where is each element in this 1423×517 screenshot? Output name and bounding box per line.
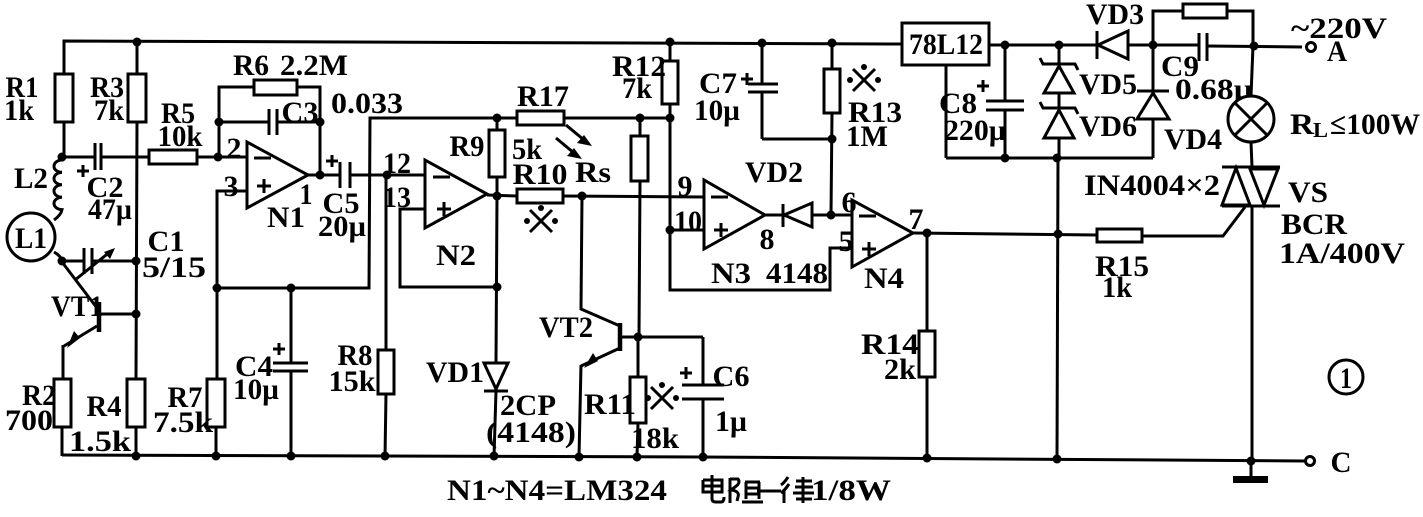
svg-text:2.2M: 2.2M xyxy=(280,49,348,82)
node bus R7 xyxy=(212,452,221,461)
svg-text:A: A xyxy=(1327,35,1347,68)
svg-text:VT2: VT2 xyxy=(539,311,593,344)
lamp RL xyxy=(1228,46,1420,167)
svg-text:1: 1 xyxy=(1340,362,1352,395)
svg-text:≤100W: ≤100W xyxy=(1330,108,1420,141)
node C4 top xyxy=(287,284,296,293)
capacitor C3 0.033 xyxy=(219,87,403,135)
svg-text:3: 3 xyxy=(224,170,239,203)
svg-text:2: 2 xyxy=(227,132,242,165)
op-amp N2 xyxy=(383,147,487,272)
triac VS BCR xyxy=(1084,167,1405,461)
svg-text:1k: 1k xyxy=(1102,271,1132,304)
node gate line / ground crossing xyxy=(1054,230,1063,239)
node C5 output xyxy=(383,171,392,180)
wire C5 node down to R8 xyxy=(385,175,388,350)
node bus R11 xyxy=(633,453,642,462)
resistor R14 2k xyxy=(861,233,935,459)
svg-text:20µ: 20µ xyxy=(318,210,366,243)
svg-text:5: 5 xyxy=(839,225,854,258)
svg-text:0.033: 0.033 xyxy=(331,87,403,120)
node C9 right xyxy=(1250,42,1259,51)
capacitor C9 0.68u xyxy=(1161,33,1302,106)
svg-text:N1~N4=LM324: N1~N4=LM324 xyxy=(447,474,667,507)
wire R1 bottom lead xyxy=(63,122,66,157)
wire C5 to N2 pin12 xyxy=(350,174,425,177)
coil L1 xyxy=(7,213,62,261)
node C1 right xyxy=(132,257,141,266)
terminal C xyxy=(1306,446,1352,479)
node N1 output xyxy=(316,171,325,180)
svg-text:C: C xyxy=(1331,446,1352,479)
node bus VT2 emitter xyxy=(575,453,584,462)
svg-text:R6: R6 xyxy=(233,49,269,82)
svg-text:7k: 7k xyxy=(94,94,124,127)
node bus R4 xyxy=(132,452,141,461)
op-amp N1 xyxy=(224,132,313,234)
node VT1 base xyxy=(132,310,141,319)
svg-text:10k: 10k xyxy=(158,120,203,153)
wire N2 pin13 feedback loop xyxy=(400,209,497,287)
caption resistors 1/8W (CJK) xyxy=(703,475,814,503)
svg-text:(4148): (4148) xyxy=(486,416,576,449)
wire R4 to bus xyxy=(135,427,138,457)
svg-text:VD2: VD2 xyxy=(745,156,803,189)
resistor R1 xyxy=(4,71,73,127)
svg-text:7: 7 xyxy=(909,203,924,236)
wire local ground row xyxy=(946,157,1153,160)
svg-text:6: 6 xyxy=(842,186,857,219)
wire node to C1 xyxy=(62,260,84,263)
regulator 78L12 xyxy=(902,23,989,65)
mark star at R13 xyxy=(847,64,881,91)
svg-text:7k: 7k xyxy=(622,72,652,105)
node pin10 xyxy=(666,226,675,235)
svg-text:R17: R17 xyxy=(517,80,569,113)
node VD3/VD4 junction xyxy=(1149,41,1158,50)
svg-text:1k: 1k xyxy=(4,94,34,127)
svg-text:1/8W: 1/8W xyxy=(811,474,891,507)
snubber resistor xyxy=(1153,4,1253,46)
wire zener bottom to main bus xyxy=(1057,158,1058,459)
svg-text:R10: R10 xyxy=(513,158,568,191)
transistor VT1 xyxy=(51,262,136,348)
node VT2 base xyxy=(634,333,643,342)
svg-text:78L12: 78L12 xyxy=(909,28,983,61)
svg-text:47µ: 47µ xyxy=(88,193,132,226)
svg-text:220µ: 220µ xyxy=(944,114,1006,147)
terminal A xyxy=(1291,12,1387,68)
svg-text:1.5k: 1.5k xyxy=(69,425,131,458)
svg-text:1A/400V: 1A/400V xyxy=(1279,237,1405,270)
node R3 top on bus xyxy=(133,38,142,47)
svg-text:VD5: VD5 xyxy=(1079,68,1137,101)
node zener bottom xyxy=(1053,154,1062,163)
ground symbol xyxy=(1233,461,1268,483)
svg-text:N3: N3 xyxy=(711,257,751,290)
svg-text:C3: C3 xyxy=(282,96,319,129)
node N4 output xyxy=(923,229,932,238)
wire 78L12 ground lead xyxy=(945,65,948,158)
node R12 bottom xyxy=(666,114,675,123)
diode VD4 xyxy=(1137,45,1222,158)
resistor R13 1M xyxy=(824,42,902,215)
svg-text:C6: C6 xyxy=(713,360,750,393)
capacitor C8 220u xyxy=(939,45,1024,158)
wire N3 loop to N4 pin5 xyxy=(670,230,852,290)
wire node to C2 xyxy=(62,156,95,159)
svg-text:12: 12 xyxy=(383,147,411,180)
node N2 feedback xyxy=(493,283,502,292)
capacitor C6 1u xyxy=(680,337,750,457)
inductor L2 xyxy=(14,157,62,220)
svg-text:VD4: VD4 xyxy=(1164,123,1222,156)
figure number 1 xyxy=(1329,360,1363,395)
resistor R9 5k xyxy=(450,118,543,196)
svg-text:9: 9 xyxy=(678,170,693,203)
svg-text:7.5k: 7.5k xyxy=(153,406,213,439)
node C3 left xyxy=(215,118,224,127)
wire R3 top lead xyxy=(136,42,139,74)
node C8 top xyxy=(1001,41,1010,50)
node ref R7 top xyxy=(213,284,222,293)
svg-text:VD1: VD1 xyxy=(426,356,484,389)
node bus R8 xyxy=(381,452,390,461)
wire reference node row xyxy=(217,118,517,288)
caption N1-N4 = LM324 xyxy=(447,474,667,507)
mark star at R11 xyxy=(645,382,679,409)
wire N1 pin3 down to ref node xyxy=(217,191,247,379)
resistor R15 1k xyxy=(1095,229,1149,304)
wire N4 output row xyxy=(913,233,1097,235)
svg-text:700: 700 xyxy=(5,404,53,437)
wire bottom common bus xyxy=(62,455,1305,461)
node C8 bottom xyxy=(1001,154,1010,163)
node bus R14 xyxy=(923,454,932,463)
transistor VT2 xyxy=(539,196,703,457)
wire R8 to bus xyxy=(385,394,386,457)
node Rs top xyxy=(636,114,645,123)
node L1 bottom xyxy=(58,257,67,266)
node R13 top on bus xyxy=(828,39,837,48)
svg-text:Rs: Rs xyxy=(575,156,611,189)
svg-text:5/15: 5/15 xyxy=(142,251,206,284)
node C7/R13 junction xyxy=(828,135,837,144)
wire R5 to N1 pin2 xyxy=(197,156,247,159)
wire R17 to Rs/R12 node xyxy=(564,117,670,120)
wire N2 output down to VD1 xyxy=(496,196,497,363)
svg-text:8: 8 xyxy=(760,223,775,256)
resistor R7 7.5k xyxy=(153,379,225,439)
svg-text:N2: N2 xyxy=(436,239,476,272)
svg-text:4148: 4148 xyxy=(766,257,828,290)
zener VD5 xyxy=(1040,45,1137,101)
svg-text:VD6: VD6 xyxy=(1079,110,1137,143)
node N1 pin2 xyxy=(214,153,223,162)
node C7 top on bus xyxy=(758,39,767,48)
wire top supply bus xyxy=(64,41,902,74)
resistor R10 xyxy=(513,158,568,203)
wire VT1 emitter to R2 xyxy=(62,345,65,379)
svg-text:L: L xyxy=(1313,118,1328,142)
photoresistor Rs xyxy=(556,118,648,337)
resistor R4 1.5k xyxy=(69,379,145,458)
svg-text:N1: N1 xyxy=(267,201,305,234)
wire C1 to vertical xyxy=(92,260,136,263)
svg-text:10µ: 10µ xyxy=(233,373,279,406)
svg-text:R: R xyxy=(1290,108,1314,141)
svg-text:18k: 18k xyxy=(631,422,679,455)
resistor R3 xyxy=(90,71,146,127)
svg-text:L1: L1 xyxy=(15,222,47,255)
svg-text:1M: 1M xyxy=(846,120,888,153)
node bus zener ground xyxy=(1053,455,1062,464)
wire N2 output xyxy=(487,195,517,196)
svg-text:R4: R4 xyxy=(87,390,122,423)
capacitor C7 10u xyxy=(694,43,832,139)
svg-text:1µ: 1µ xyxy=(715,405,747,438)
node bus triac xyxy=(1247,457,1256,466)
mark star under R10 xyxy=(524,205,558,232)
capacitor C5 20u xyxy=(318,155,366,243)
wire R10 to N3 pin9 xyxy=(563,196,704,197)
node L2 top xyxy=(58,153,67,162)
resistor R8 15k xyxy=(329,339,395,398)
op-amp N3 xyxy=(674,170,828,290)
capacitor C2 47u xyxy=(77,143,132,226)
svg-text:10µ: 10µ xyxy=(694,94,740,127)
wire R7 to bus xyxy=(215,427,218,457)
wire 78L12 output xyxy=(989,44,1097,47)
svg-text:15k: 15k xyxy=(329,365,376,398)
svg-text:L2: L2 xyxy=(14,162,48,195)
svg-text:10: 10 xyxy=(674,205,702,238)
zener VD6 xyxy=(1040,93,1137,158)
wire R2 to bus xyxy=(61,427,64,456)
node VD5 top xyxy=(1055,41,1064,50)
svg-text:VD3: VD3 xyxy=(1086,0,1144,31)
node bus VD1 xyxy=(490,452,499,461)
resistor R11 18k xyxy=(584,337,679,457)
node C3 right xyxy=(316,118,325,127)
svg-text:VT1: VT1 xyxy=(51,290,103,323)
node bus C4 xyxy=(287,452,296,461)
svg-text:R11: R11 xyxy=(584,388,636,421)
diode VD2 xyxy=(745,156,852,227)
diode VD1 2CP(4148) xyxy=(426,356,576,457)
node N2 output xyxy=(493,192,502,201)
node VT2 collector tap xyxy=(578,192,587,201)
diode VD3 xyxy=(1086,0,1199,59)
svg-text:N4: N4 xyxy=(864,262,904,295)
wire N1 output to C5 xyxy=(308,174,340,177)
svg-text:IN4004×2: IN4004×2 xyxy=(1084,169,1220,202)
svg-text:2k: 2k xyxy=(884,353,916,386)
node bus C6 xyxy=(699,453,708,462)
svg-text:R9: R9 xyxy=(450,130,485,163)
resistor R12 7k xyxy=(612,42,678,230)
node R12 top on bus xyxy=(666,38,675,47)
svg-text:VS: VS xyxy=(1288,176,1328,209)
resistor R5 10k xyxy=(149,97,203,164)
wire C2 to R5 xyxy=(101,156,151,159)
capacitor C4 10u xyxy=(233,288,308,457)
trimmer capacitor C1 5/15 xyxy=(75,225,206,284)
resistor R6 2.2M feedback xyxy=(219,49,348,175)
op-amp N4 xyxy=(839,186,924,295)
wire R3 to R4 vertical xyxy=(136,122,137,379)
resistor R2 700 xyxy=(5,379,71,437)
resistor R17 xyxy=(517,80,569,125)
node N4 pin6 xyxy=(827,211,836,220)
node R9 top xyxy=(493,114,502,123)
wire N3 pin10 xyxy=(670,229,704,232)
